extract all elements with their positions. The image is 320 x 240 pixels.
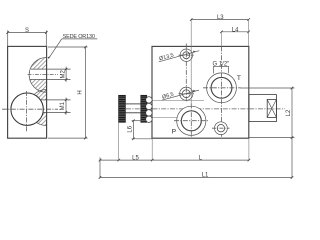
mounting hole lower (Ø6,5) (180, 87, 193, 100)
svg-text:L1: L1 (202, 173, 209, 179)
left view: lower seat hemisphere, hatched section (28, 90, 46, 126)
main view: bore hidden edge lines (152, 99, 204, 101)
dimension line L5 and L (99, 122, 251, 177)
plug seal box with cross (267, 100, 276, 118)
port T vertical centerline (221, 46, 223, 136)
mounting holes horizontal centerline ticks (179, 54, 195, 56)
svg-text:P: P (172, 129, 177, 136)
left view: body outline rectangle (8, 46, 47, 138)
svg-text:L6: L6 (128, 125, 134, 132)
dimension L2 (240, 87, 295, 178)
svg-text:M1: M1 (60, 101, 66, 110)
port T circles (207, 73, 237, 103)
dimension L1 (99, 173, 294, 179)
left view: horizontal axis centerline (2, 108, 58, 110)
svg-text:L2: L2 (286, 109, 292, 116)
mounting holes vertical centerline (185, 44, 187, 103)
leader Ø13,5 (158, 51, 199, 63)
lock washers stack (146, 97, 152, 123)
knob stem (125, 104, 140, 113)
svg-text:H: H (78, 90, 84, 94)
left view: large bore circle (11, 93, 43, 125)
mounting hole upper (Ø13,5) (180, 49, 192, 61)
svg-text:M2: M2 (60, 69, 66, 78)
dimension L6 (128, 119, 152, 140)
left view: upper seat centerline (28, 74, 59, 76)
svg-text:L4: L4 (232, 27, 239, 33)
left view: M2 tapped hole band (white) (30, 69, 71, 79)
main view: axis centerline (126, 108, 285, 110)
adjustment knob 1 (knurled) (119, 95, 126, 122)
svg-text:S: S (25, 28, 29, 34)
dimension M1 (60, 98, 67, 115)
leader Ø6,5 (161, 90, 199, 101)
dimension S (6, 28, 47, 46)
svg-text:L3: L3 (217, 15, 224, 21)
side plug housing (249, 95, 276, 122)
dimension H (48, 46, 88, 140)
port P circles (177, 106, 206, 135)
port T horizontal centerline (203, 87, 241, 89)
leader SEDE OR130 (48, 34, 98, 59)
dimension M2 (60, 67, 67, 82)
drain hole bottom right (212, 122, 230, 135)
dimension L4 (220, 20, 250, 46)
main view: block outline (152, 46, 249, 138)
svg-text:T: T (237, 75, 241, 82)
left view: vertical centerline of bore (26, 91, 28, 132)
left view: M1 tapped hole band (white) (31, 100, 71, 113)
svg-text:L5: L5 (132, 156, 139, 162)
callout G 1/2" (212, 61, 229, 73)
adjustment knob 2 (knurled) (141, 95, 147, 122)
dimension L3 (190, 15, 250, 106)
left view: upper O-ring seat hemisphere (SEDE OR130), hatched section (29, 58, 46, 93)
port P centerlines (190, 104, 192, 138)
